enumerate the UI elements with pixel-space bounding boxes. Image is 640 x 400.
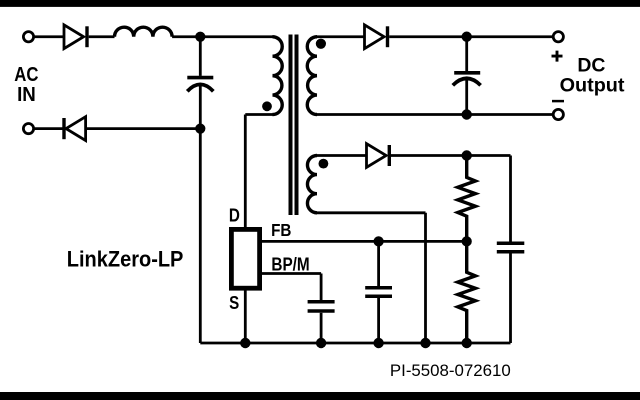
wire: bias winding return (317, 213, 426, 343)
node: input cap top junction (195, 32, 205, 42)
resistor R2 (lower feedback divider) (458, 241, 476, 343)
wire: left vertical to bottom rail (199, 129, 202, 343)
svg-text:IN: IN (17, 84, 36, 106)
wire: bias top to D4 (317, 154, 367, 157)
node: R2 on rail (462, 338, 472, 348)
AC input upper terminal (23, 32, 33, 42)
capacitor C4 (feedback) (377, 241, 380, 286)
capacitor C1 (input filter, polarized) (199, 37, 202, 76)
node: FB cap on rail (373, 338, 383, 348)
wire: secondary top to D3 (317, 35, 365, 38)
transformer T1 secondary winding (307, 37, 317, 115)
node: bias return on rail (420, 338, 430, 348)
capacitor C2 (output filter, polarized) (465, 37, 468, 71)
svg-text:LinkZero-LP: LinkZero-LP (67, 246, 184, 271)
wire: bottom rail (200, 342, 510, 345)
capacitor C5 (bias filter) (497, 242, 525, 246)
wire: node to + terminal (467, 35, 554, 38)
wire: bias cap top lead (509, 156, 512, 242)
node: bypass cap on rail (316, 338, 326, 348)
transformer T1 primary winding (273, 37, 283, 115)
wire: L1 to input-cap node (172, 35, 200, 38)
capacitor C3 (BP/M bypass) (308, 300, 335, 304)
node: divider midpoint (462, 236, 472, 246)
wire: secondary bottom rail to - terminal (317, 113, 554, 116)
node: output cap top junction (462, 32, 472, 42)
node: output cap bottom junction (462, 109, 472, 119)
svg-text:FB: FB (271, 220, 291, 240)
node: FB cap junction (374, 236, 384, 246)
node: S pin on rail (240, 338, 250, 348)
wire: bias cap bottom lead (509, 254, 512, 344)
wire: D1 to L1 (89, 35, 115, 38)
resistor R1 (upper feedback divider) (458, 156, 476, 242)
wire: primary to D pin (244, 115, 247, 230)
diode D3 (output rectifier) (365, 25, 385, 49)
svg-text:Output: Output (560, 76, 626, 97)
wire: node to bias cap corner (467, 154, 511, 157)
svg-text:BP/M: BP/M (271, 255, 309, 275)
svg-text:DC: DC (577, 55, 605, 76)
diode D2 (lower input rectifier, pointing left) (62, 118, 65, 139)
svg-text:PI-5508-072610: PI-5508-072610 (390, 362, 511, 380)
AC input lower terminal (23, 124, 33, 134)
primary phase dot (262, 101, 272, 111)
wire: lower terminal to D2 (33, 127, 64, 130)
svg-text:AC: AC (14, 64, 38, 86)
wire: primary bottom lead (245, 113, 272, 116)
plus sign (552, 51, 563, 62)
wire: bypass cap to bottom rail (320, 313, 323, 343)
DC output - terminal (553, 109, 563, 119)
wire: BP/M pin to bypass cap (262, 274, 321, 301)
wire: FB line from IC (262, 240, 467, 243)
minus sign (552, 100, 564, 103)
transformer T1 bias winding (307, 156, 317, 213)
node: bias rail / R1 top (462, 150, 472, 160)
wire: S pin to bottom rail (244, 288, 247, 343)
DC output + terminal (553, 32, 563, 42)
secondary phase dot (316, 39, 326, 49)
diode D1 (upper input rectifier) (64, 25, 84, 49)
wire: D3 to output cap node (389, 35, 467, 38)
IC U1 LinkZero-LP body (231, 229, 259, 288)
node: input cap bottom junction (195, 124, 205, 134)
wire: D2 to lower node (86, 127, 201, 130)
svg-text:S: S (229, 293, 239, 313)
wire: node to transformer primary top (200, 35, 272, 38)
svg-text:D: D (229, 206, 240, 226)
transformer core (289, 35, 293, 216)
bias phase dot (319, 159, 329, 169)
wire: D4 to R1 node (391, 154, 467, 157)
inductor L1 (115, 27, 173, 37)
wire: upper terminal to D1 (33, 35, 64, 38)
diode D4 (bias rectifier) (367, 144, 387, 168)
